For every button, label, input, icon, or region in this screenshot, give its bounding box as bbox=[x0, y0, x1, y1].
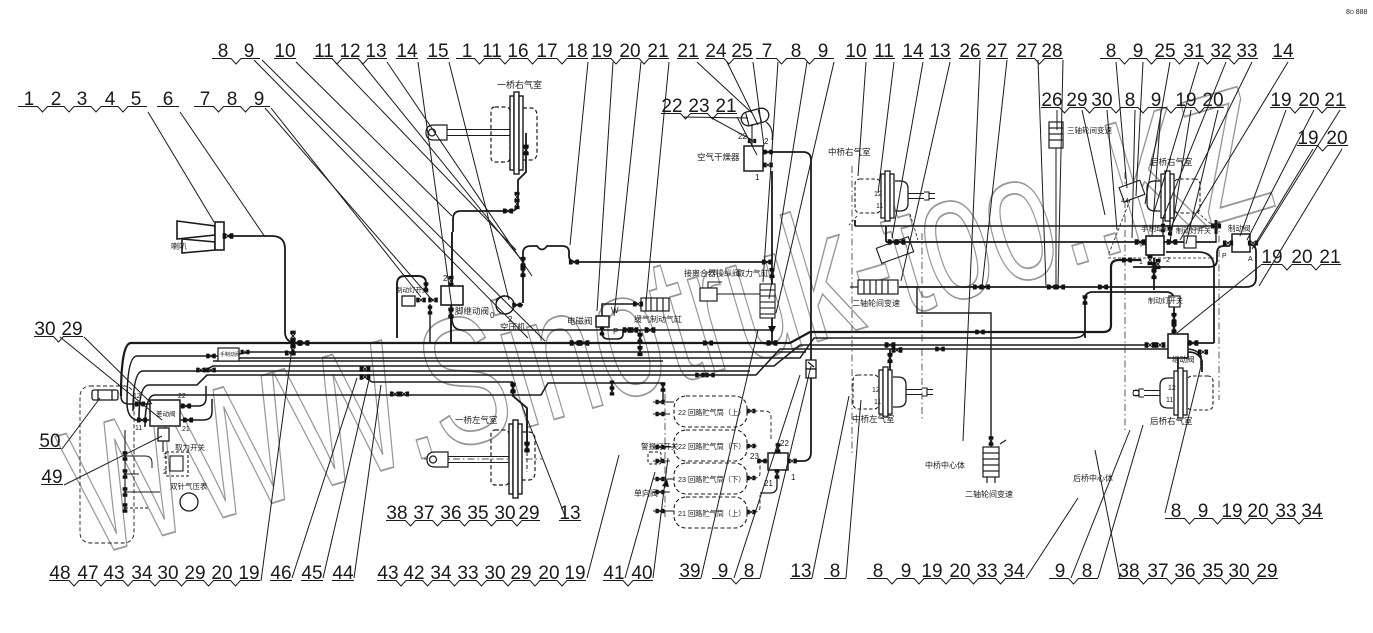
fittings tank right ports bbox=[747, 409, 756, 414]
svg-text:22 回路贮气筒（下）: 22 回路贮气筒（下） bbox=[678, 442, 746, 451]
svg-text:后桥中心体: 后桥中心体 bbox=[1073, 473, 1113, 483]
wire brake valve P-line bbox=[1133, 246, 1230, 267]
wire unloader stubs bbox=[752, 122, 772, 146]
callout 13 mid bbox=[521, 403, 581, 524]
svg-text:电磁阀: 电磁阀 bbox=[567, 316, 593, 326]
fittings mid left feed bbox=[885, 342, 896, 347]
svg-text:11: 11 bbox=[874, 399, 881, 406]
callout 27 bbox=[982, 41, 1008, 287]
svg-text:一桥左气室: 一桥左气室 bbox=[455, 415, 498, 425]
wire tank stubs bbox=[653, 402, 674, 511]
axle centerline rear bbox=[1124, 172, 1126, 432]
callout 11b bbox=[873, 41, 895, 193]
wire line D bbox=[213, 360, 663, 362]
wire column stubs bbox=[125, 456, 160, 508]
svg-text:喇叭: 喇叭 bbox=[171, 241, 187, 251]
wire line C bbox=[239, 330, 1085, 358]
callout 6 bbox=[157, 89, 265, 237]
foot relay valve bbox=[441, 286, 463, 305]
fitting chamber feed bbox=[523, 145, 528, 156]
wire mid-left chamber drop bbox=[889, 349, 891, 374]
callouts 41 40 bbox=[603, 458, 668, 586]
wire foot valve drop left bbox=[429, 304, 431, 343]
wire protection valve port23 stub bbox=[757, 460, 768, 462]
svg-text:1: 1 bbox=[791, 473, 796, 482]
gauge bbox=[180, 493, 198, 511]
svg-text:21 回路贮气筒（上）: 21 回路贮气筒（上） bbox=[678, 509, 746, 518]
callout 26 bbox=[959, 41, 981, 441]
tank chain centerline bbox=[664, 394, 666, 520]
callout 50 bbox=[39, 398, 100, 452]
fittings tank chain bbox=[656, 400, 665, 405]
mid axle right chamber bbox=[855, 171, 935, 221]
svg-text:11: 11 bbox=[1166, 397, 1173, 404]
svg-text:P: P bbox=[1222, 253, 1227, 260]
wire solenoid circuit line 330 bbox=[452, 318, 772, 330]
wire dryer down pipe bbox=[771, 171, 773, 343]
wire line F bbox=[197, 370, 750, 372]
svg-text:22: 22 bbox=[780, 439, 789, 448]
front axle left chamber bbox=[427, 420, 535, 498]
svg-text:一桥右气室: 一桥右气室 bbox=[497, 79, 542, 90]
svg-text:23 回路贮气筒（下）: 23 回路贮气筒（下） bbox=[678, 475, 746, 484]
callout 10 bbox=[274, 41, 452, 216]
centerline front left chamber bbox=[424, 458, 542, 460]
svg-text:P: P bbox=[613, 327, 618, 336]
svg-text:1: 1 bbox=[163, 453, 167, 460]
wire relay bottom to chamber bbox=[1178, 352, 1202, 372]
wire protection valve port21 drop bbox=[760, 470, 777, 493]
axle centerline mid2 bbox=[921, 233, 923, 420]
three axle difflock bbox=[1049, 122, 1063, 287]
svg-text:制动灯开关: 制动灯开关 bbox=[1176, 226, 1211, 235]
wire top line y226 bbox=[855, 226, 1216, 243]
four circuit protection valve bbox=[768, 453, 788, 470]
svg-text:8O 888: 8O 888 bbox=[1346, 9, 1368, 16]
fittings trailer valve bbox=[1223, 240, 1233, 245]
wire protection valve port22 stub bbox=[777, 442, 779, 453]
svg-text:二轴轮间变速: 二轴轮间变速 bbox=[965, 489, 1013, 499]
fittings left column bbox=[123, 451, 128, 461]
wire hand valve bottom drop bbox=[1153, 258, 1155, 290]
horn fitting bbox=[223, 233, 234, 238]
callouts 19 20 21 right bbox=[1240, 90, 1346, 248]
arrow check valve bbox=[662, 479, 669, 487]
callouts 9 8 bottom bbox=[712, 366, 811, 584]
axle centerline mid bbox=[851, 166, 853, 455]
svg-text:1: 1 bbox=[1139, 259, 1143, 266]
clutch control valve bbox=[700, 288, 717, 301]
interwheel diff coil bbox=[850, 280, 898, 294]
callout 14b bbox=[892, 41, 924, 238]
svg-text:0: 0 bbox=[490, 311, 495, 320]
wire foot valve left loop bbox=[397, 276, 426, 338]
svg-text:2: 2 bbox=[1166, 257, 1170, 264]
callouts 9 8 bottom right bbox=[1049, 425, 1143, 584]
svg-text:22 回路贮气筒（上）: 22 回路贮气筒（上） bbox=[678, 408, 746, 417]
svg-text:脚继动阀: 脚继动阀 bbox=[455, 306, 489, 316]
svg-text:1: 1 bbox=[755, 173, 760, 182]
wire tank chain riser bbox=[662, 383, 664, 403]
callouts 43-19 bottom mid bbox=[377, 455, 619, 586]
svg-text:2: 2 bbox=[448, 311, 453, 320]
clevis rear bottom chamber bbox=[1133, 390, 1139, 396]
callouts 11 12 13 bbox=[313, 41, 532, 276]
inline hand control valve bbox=[218, 348, 239, 361]
compressor bbox=[496, 296, 514, 314]
callouts 30 29 left bbox=[34, 319, 162, 420]
small solenoid below bbox=[158, 428, 169, 441]
wire left fitting column bbox=[124, 430, 126, 512]
fittings dryer bbox=[763, 150, 773, 155]
svg-text:12: 12 bbox=[1168, 385, 1176, 392]
unloader valve oval bbox=[740, 107, 771, 128]
bracket tilted bbox=[1119, 180, 1145, 202]
callouts 7 8 9 left bbox=[194, 89, 433, 301]
callouts 8 9 top bbox=[212, 41, 545, 341]
svg-text:12: 12 bbox=[872, 387, 880, 394]
fittings dryer drop bbox=[762, 259, 772, 264]
fitting front left chamber feed bbox=[524, 442, 529, 453]
wire mid right chamber drop bbox=[855, 220, 886, 242]
svg-text:A: A bbox=[1248, 256, 1253, 263]
svg-text:取力开关: 取力开关 bbox=[175, 442, 205, 452]
svg-text:缓气制动气缸: 缓气制动气缸 bbox=[634, 314, 682, 324]
svg-text:中桥右气室: 中桥右气室 bbox=[828, 147, 871, 157]
callout 49 bbox=[41, 436, 162, 488]
svg-text:2: 2 bbox=[163, 469, 167, 476]
fittings diff valve bbox=[135, 401, 145, 406]
wire junction compressor-dryer bbox=[764, 261, 772, 263]
exhaust brake cylinder coil bbox=[641, 298, 669, 311]
wire coil drop bbox=[639, 330, 641, 356]
rear axle right chamber bottom bbox=[1133, 368, 1213, 418]
relay valve bbox=[1168, 334, 1188, 358]
air tank 2 bbox=[674, 430, 747, 461]
fittings foot valve bbox=[416, 298, 426, 303]
wire dashed mid chamber funnel bbox=[849, 214, 918, 240]
front axle right chamber bbox=[426, 92, 537, 174]
svg-text:11: 11 bbox=[876, 203, 883, 210]
callouts 19 20 21 mid bbox=[1177, 247, 1341, 333]
callouts 8 9 25 31 32 33 bbox=[1100, 41, 1258, 225]
fittings mid right drop bbox=[888, 239, 899, 244]
svg-text:11: 11 bbox=[135, 425, 142, 432]
svg-text:继动阀: 继动阀 bbox=[1172, 354, 1195, 364]
svg-text:44: 44 bbox=[1121, 198, 1129, 205]
stop lamp switch right bbox=[1184, 236, 1196, 248]
wire front left chamber feed bbox=[513, 382, 527, 452]
callouts 38-29 bottom right bbox=[1095, 450, 1278, 584]
callout 14c bbox=[1180, 41, 1294, 240]
svg-text:12: 12 bbox=[133, 393, 141, 400]
fittings protection valve bbox=[776, 443, 781, 453]
callouts 7 8 9 right bbox=[756, 41, 834, 313]
callouts 19 20 row3 bbox=[1252, 128, 1348, 286]
air tank 3 bbox=[674, 463, 747, 494]
svg-text:差动阀: 差动阀 bbox=[156, 409, 176, 418]
wire branch line 382 bbox=[366, 378, 513, 382]
svg-text:单向阀: 单向阀 bbox=[634, 488, 658, 498]
wire tank right dashed links bbox=[747, 411, 771, 512]
svg-text:制动灯开关: 制动灯开关 bbox=[1148, 296, 1183, 305]
wire line B bbox=[127, 352, 806, 403]
callout 45 bbox=[301, 380, 369, 584]
callout 39 bbox=[679, 330, 758, 582]
callouts 38-29 mid bbox=[386, 503, 540, 526]
wire line E bbox=[133, 345, 1146, 411]
callouts 1-5 bbox=[18, 89, 214, 222]
wire solenoid top to coil bbox=[602, 304, 637, 316]
callouts 1 11 16 17 18 bbox=[456, 41, 588, 245]
hand brake valve bbox=[1146, 236, 1164, 255]
callout 13 bottom bbox=[790, 396, 849, 582]
callout 8 bottom bbox=[824, 400, 861, 582]
trailer brake valve bbox=[1232, 234, 1250, 252]
svg-text:制动阀: 制动阀 bbox=[1228, 223, 1251, 233]
wire line G bbox=[139, 349, 1201, 419]
left cluster dashed enclosure bbox=[80, 386, 134, 543]
mid axle left chamber bbox=[853, 367, 933, 417]
fittings compressor riser bbox=[512, 303, 522, 308]
svg-text:双针气压表: 双针气压表 bbox=[170, 481, 208, 491]
difflock cylinder bbox=[983, 440, 1006, 483]
wire horn supply bbox=[228, 236, 294, 343]
air tank 4 bbox=[674, 497, 747, 528]
callout 14 bbox=[396, 41, 452, 308]
fittings hand valve bbox=[1135, 239, 1146, 244]
callouts 22 23 21 bbox=[661, 96, 757, 155]
wire main supply line A bbox=[121, 260, 1141, 396]
callout 13b bbox=[901, 41, 951, 281]
warning lamp switch bbox=[648, 452, 661, 464]
callout 15 bbox=[427, 41, 509, 300]
takeoff switch bbox=[166, 452, 188, 476]
wire trailer line y287 bbox=[899, 245, 1256, 287]
wire hand brake supply y241 bbox=[886, 241, 1216, 243]
callout 10b bbox=[845, 41, 867, 176]
svg-text:中桥中心体: 中桥中心体 bbox=[925, 460, 965, 470]
stop lamp switch left bbox=[402, 296, 415, 306]
fittings solenoid cluster bbox=[633, 301, 643, 306]
svg-text:空压机: 空压机 bbox=[500, 322, 526, 332]
callouts 19 20 21 bbox=[591, 41, 669, 316]
callouts 8 9 19 20 33 34 bottom bbox=[867, 498, 1078, 584]
wire hand valve port2 loop bbox=[1166, 252, 1214, 343]
callouts 8 9 19 20 33 34 right mid bbox=[1165, 362, 1323, 524]
fitting three axle drop bbox=[1047, 284, 1057, 289]
stop lamp switch relay bbox=[1169, 296, 1180, 307]
wire difflock cylinder drop bbox=[917, 287, 991, 447]
air dryer bbox=[744, 146, 763, 171]
svg-text:警报灯开关: 警报灯开关 bbox=[641, 441, 679, 451]
power takeoff cylinder bbox=[760, 284, 775, 318]
horn bbox=[177, 221, 224, 253]
svg-text:空气干燥器: 空气干燥器 bbox=[697, 152, 740, 162]
check valve stack bbox=[806, 360, 816, 378]
callouts 48-19 bottom left bbox=[49, 348, 292, 586]
callout 21b bbox=[677, 41, 752, 113]
air tank 1 bbox=[674, 396, 747, 427]
svg-text:手制动阀: 手制动阀 bbox=[220, 351, 240, 358]
wire solenoid P to line330 bbox=[602, 327, 623, 339]
arrow fitting on dryer drop bbox=[768, 326, 776, 334]
svg-text:21: 21 bbox=[182, 426, 190, 433]
wire line H bbox=[145, 383, 663, 427]
wire rear chamber drops bbox=[1163, 218, 1170, 236]
differential valve bbox=[150, 400, 180, 426]
silencer bbox=[92, 390, 118, 400]
callouts 27 28 bbox=[1016, 41, 1063, 287]
callout 46 bbox=[270, 378, 357, 584]
wire valve left ports bbox=[121, 396, 150, 420]
callouts 24 25 bbox=[705, 41, 764, 146]
fitting difflock bbox=[989, 436, 994, 446]
rear axle right chamber top bbox=[1147, 171, 1200, 221]
bracket mid axle bbox=[876, 237, 913, 264]
wire relay feed riser bbox=[1085, 292, 1174, 338]
svg-text:接离合器操纵阀: 接离合器操纵阀 bbox=[684, 268, 740, 278]
wire foot valve main drop bbox=[451, 232, 452, 343]
axle centerline rear2 bbox=[1218, 221, 1220, 400]
svg-text:2: 2 bbox=[764, 137, 769, 146]
wire front right chamber feed bbox=[453, 133, 526, 232]
callouts 26 29 30 8 9 19 20 bbox=[1041, 90, 1224, 244]
wire dashed rear funnel bbox=[1108, 200, 1218, 258]
solenoid valve bbox=[596, 316, 609, 327]
fittings on lines bbox=[291, 340, 302, 345]
wire tank drop x612 bbox=[611, 383, 613, 394]
svg-text:二轴轮间变速: 二轴轮间变速 bbox=[852, 298, 900, 308]
callout 44 bbox=[332, 385, 381, 584]
wire compressor to dryer bbox=[514, 246, 764, 305]
svg-text:23: 23 bbox=[750, 452, 759, 461]
fittings rear chamber drops bbox=[1161, 224, 1165, 232]
svg-text:22: 22 bbox=[178, 393, 186, 400]
watermark bbox=[43, 47, 1290, 595]
svg-text:三轴轮间变速: 三轴轮间变速 bbox=[1067, 125, 1112, 135]
svg-text:中桥左气室: 中桥左气室 bbox=[852, 414, 895, 424]
wire valve right ports bbox=[180, 386, 212, 420]
fittings relay bbox=[1145, 342, 1156, 347]
svg-text:手制动阀: 手制动阀 bbox=[1141, 223, 1171, 233]
wire dryer to check valve to protection valve bbox=[762, 152, 811, 461]
